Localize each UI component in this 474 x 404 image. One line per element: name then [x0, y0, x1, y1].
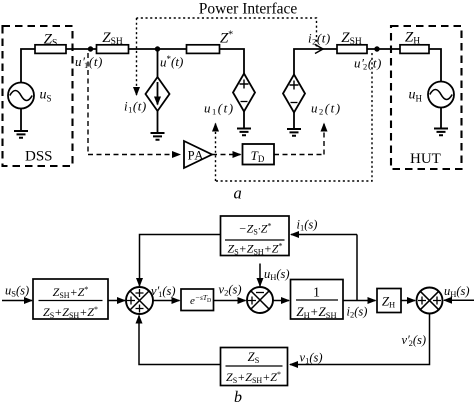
wire ZH to sum3 — [401, 300, 415, 302]
svg-text:ZSH+Z*: ZSH+Z* — [53, 285, 89, 300]
resistor Z* — [187, 45, 220, 54]
label uH(s) (right input) — [444, 284, 470, 299]
wire uH(s) down into sum2 — [259, 264, 261, 287]
block (ZSH+Z*)/(ZS+ZSH+Z*) — [33, 279, 108, 320]
wire block to sum1 — [108, 300, 125, 302]
wire sum1 to e-block — [153, 300, 180, 302]
current arrow i2 on wire — [315, 45, 323, 54]
label ZSH (left) — [102, 30, 123, 47]
wire u1 to ground — [243, 112, 245, 129]
label v'1(s) — [151, 284, 176, 299]
source uS (AC source) — [8, 83, 34, 109]
resistor ZSH (right) — [337, 45, 367, 54]
block TD (time delay) — [243, 144, 275, 165]
svg-text:u1(t): u1(t) — [204, 101, 235, 117]
wire ZH to uH — [429, 49, 441, 82]
resistor ZSH (left) — [97, 45, 129, 54]
block -ZS.Z*/(ZS+ZSH+Z*) (top feedback) — [221, 216, 290, 257]
label Power Interface — [199, 1, 298, 18]
summing junction sum2 — [247, 287, 273, 313]
svg-text:i1(t): i1(t) — [124, 99, 147, 115]
svg-text:ZSH: ZSH — [341, 30, 362, 47]
svg-text:u′2(t): u′2(t) — [354, 56, 382, 72]
op-amp PA (power amplifier) — [184, 141, 212, 168]
label ZH — [405, 30, 420, 47]
svg-text:u2(t): u2(t) — [311, 101, 342, 117]
label u*(t) — [160, 54, 183, 70]
label u'2(t) — [354, 56, 382, 72]
ground (uS) — [14, 131, 28, 138]
node u'1 — [88, 46, 93, 51]
svg-text:ZSH: ZSH — [102, 30, 123, 47]
svg-text:a: a — [234, 184, 242, 203]
label Z* — [220, 30, 233, 47]
wire i1 diamond to ground — [157, 111, 159, 133]
dotted feedback line u'2 to u1 — [216, 53, 373, 181]
ground (u2) — [287, 129, 301, 136]
label ZS — [44, 32, 58, 49]
label u'1(t) — [75, 54, 103, 70]
svg-text:u′1(t): u′1(t) — [75, 54, 103, 70]
svg-text:PA: PA — [188, 149, 205, 163]
label uH — [409, 88, 423, 104]
label v'2(s) — [402, 333, 427, 348]
summing junction sum1 — [126, 287, 153, 314]
svg-text:v1(s): v1(s) — [300, 351, 323, 366]
ground (uH) — [434, 129, 448, 136]
wire ZSH to ZH — [367, 48, 400, 50]
wire uH(s) right input into sum3 — [444, 299, 474, 301]
wire e-block to sum2 — [214, 300, 246, 302]
node u* — [155, 46, 160, 51]
summing junction sum3 — [417, 288, 443, 314]
source uH (AC source) — [428, 82, 454, 108]
svg-text:Z*: Z* — [220, 30, 233, 47]
dashed control line TD to u2 — [274, 124, 324, 155]
wire uH to ground — [440, 108, 442, 129]
svg-text:uH(s): uH(s) — [444, 284, 470, 299]
wire ZS to ZSH — [66, 48, 97, 50]
label i2(t) — [308, 31, 331, 47]
ground (i1) — [151, 133, 165, 140]
block ZH — [377, 289, 401, 313]
label v2(s) — [219, 283, 242, 298]
wire sum3 output down to bottom feedback — [290, 314, 430, 365]
svg-text:uH: uH — [409, 88, 423, 104]
wire bottom feedback to sum1 — [139, 316, 221, 365]
label i1(s) — [297, 218, 318, 233]
svg-text:ZS: ZS — [44, 32, 58, 49]
label i2(s) — [347, 305, 368, 320]
node u'2 — [374, 46, 379, 51]
wire uS to ground — [20, 109, 22, 132]
wire u2 to ground — [293, 113, 295, 130]
svg-text:v′1(s): v′1(s) — [151, 284, 176, 299]
wire Z* to u1 source — [220, 49, 245, 74]
wire sum2 to 1/(ZH+ZSH) block — [273, 300, 289, 302]
svg-text:Power Interface: Power Interface — [199, 1, 298, 18]
label uH(s) (top input) — [264, 267, 290, 282]
block e^-sTD — [181, 289, 214, 311]
resistor ZH — [400, 45, 429, 54]
ground (u1) — [237, 129, 251, 136]
wire u2 to top wire — [294, 49, 337, 75]
dependent current source i1 (diamond, arrow down) — [146, 77, 170, 111]
label v1(s) — [300, 351, 323, 366]
svg-text:i1(s): i1(s) — [297, 218, 318, 233]
svg-text:1: 1 — [313, 286, 320, 301]
DSS dashed box — [3, 26, 73, 166]
label a — [234, 184, 242, 203]
HUT dashed box — [391, 26, 462, 169]
svg-text:HUT: HUT — [410, 151, 441, 167]
label i1(t) — [124, 99, 147, 115]
block ZS/(ZS+ZSH+Z*) (bottom feedback) — [221, 348, 288, 386]
label u1(t) — [204, 101, 235, 117]
wire top feedback into -ZS.Z* block — [291, 234, 357, 236]
dependent voltage source u2 (diamond +/-) — [283, 75, 305, 113]
resistor ZS — [35, 45, 66, 54]
svg-text:v2(s): v2(s) — [219, 283, 242, 298]
label DSS — [25, 149, 53, 165]
node takeoff to top feedback — [356, 235, 358, 301]
label b — [234, 389, 242, 404]
dotted feedback line i2 to i1 (power interface top) — [137, 18, 317, 95]
dashed control line u'1 to PA — [88, 53, 180, 155]
svg-text:i2(s): i2(s) — [347, 305, 368, 320]
svg-text:ZH: ZH — [405, 30, 420, 47]
svg-text:uS(s): uS(s) — [5, 284, 29, 299]
wire block to ZH block — [343, 300, 376, 302]
svg-text:DSS: DSS — [25, 149, 53, 165]
svg-text:uS: uS — [40, 88, 52, 104]
label uS(s) input — [5, 284, 29, 299]
wire uS(s) input arrow — [2, 300, 32, 302]
svg-text:uH(s): uH(s) — [264, 267, 290, 282]
wire top feedback block to sum1 — [140, 235, 221, 287]
label HUT — [410, 151, 441, 167]
dashed arrow PA to TD — [212, 154, 241, 156]
wire uS to ZS — [21, 49, 35, 83]
svg-text:i2(t): i2(t) — [308, 31, 331, 47]
svg-text:v′2(s): v′2(s) — [402, 333, 427, 348]
svg-text:b: b — [234, 389, 242, 404]
svg-text:u*(t): u*(t) — [160, 54, 183, 70]
label ZSH (right) — [341, 30, 362, 47]
wire u* node to i1 diamond — [157, 49, 159, 77]
wire ZSH to Z* — [129, 48, 187, 50]
label u2(t) — [311, 101, 342, 117]
dependent voltage source u1 (diamond +/-) — [233, 74, 255, 112]
block 1/(ZH+ZSH) — [291, 280, 344, 321]
label uS — [40, 88, 52, 104]
